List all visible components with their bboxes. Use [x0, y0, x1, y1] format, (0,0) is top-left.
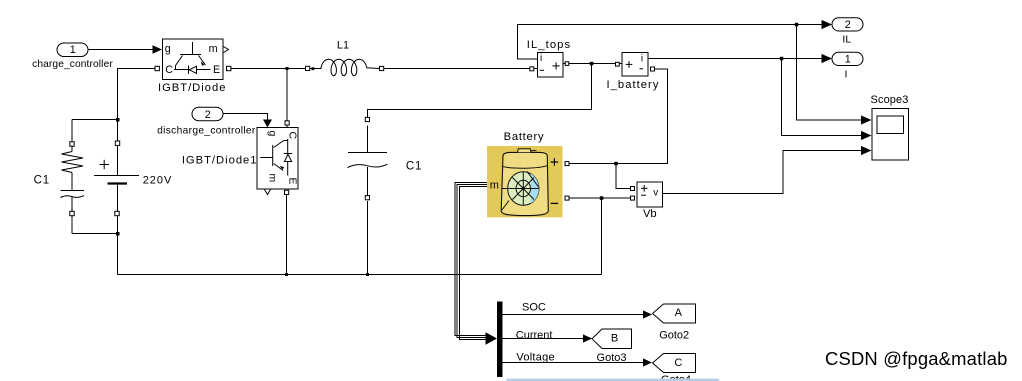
- battery logo: [508, 172, 539, 206]
- Goto B (Goto3): [592, 329, 632, 349]
- selection highlight line bottom: [506, 379, 720, 381]
- outport 2 IL: [832, 18, 863, 31]
- port square Vb minus input: [631, 196, 635, 200]
- Goto A (Goto2): [653, 304, 696, 323]
- port square IGBT/Diode1 E output: [285, 190, 289, 194]
- port square L1 right: [380, 66, 384, 70]
- wire C1 branch bottom connector: [72, 233, 118, 235]
- inport 1 charge_controller: [57, 43, 88, 57]
- svg-text:i: i: [540, 53, 542, 64]
- port square 220V top: [115, 141, 119, 145]
- Goto C (Goto4): [653, 354, 696, 373]
- wire I_battery i output to outport1 I: [648, 58, 822, 60]
- svg-text:Current: Current: [516, 330, 553, 342]
- svg-text:C1: C1: [34, 175, 50, 187]
- junction IGBT1 emitter on rail: [285, 273, 288, 276]
- svg-text:Vb: Vb: [643, 208, 657, 220]
- IGBT/Diode block U1: [163, 39, 229, 80]
- svg-text:A: A: [675, 307, 683, 319]
- port square IL_tops output: [565, 62, 569, 66]
- svg-text:I_battery: I_battery: [607, 79, 660, 91]
- arrowhead into outport2 IL: [822, 20, 833, 29]
- svg-text:I: I: [845, 68, 848, 80]
- port square C1 left branch bottom: [70, 211, 74, 215]
- svg-text:C: C: [674, 357, 682, 369]
- port square IGBT/Diode C input: [155, 66, 159, 70]
- svg-text:v: v: [653, 187, 658, 198]
- svg-text:Goto3: Goto3: [597, 352, 627, 364]
- svg-text:C1: C1: [406, 160, 422, 172]
- svg-text:m: m: [209, 43, 218, 55]
- svg-text:g: g: [267, 131, 279, 137]
- wire IL_tops plus to I_battery plus: [563, 63, 622, 65]
- port square Battery minus: [565, 196, 569, 200]
- wire C1 branch vertical segments: [71, 120, 73, 152]
- wire L1 to IL_tops: [384, 68, 538, 70]
- svg-text:Scope3: Scope3: [871, 94, 909, 106]
- svg-text:IGBT/Diode1: IGBT/Diode1: [182, 154, 258, 166]
- junction IL_tops output node: [590, 62, 594, 66]
- junction IGBT/Diode1 collector tap: [286, 67, 289, 70]
- port square IGBT/Diode E output: [227, 66, 231, 70]
- junction Battery minus node: [600, 196, 604, 200]
- wire Battery minus branch to bottom rail: [601, 198, 603, 275]
- current measurement I_battery: [622, 53, 648, 77]
- junction IL output node: [795, 23, 799, 27]
- arrowhead scope input3: [861, 146, 872, 155]
- svg-text:charge_controller: charge_controller: [32, 59, 113, 70]
- wire bottom rail: [118, 274, 602, 276]
- wire IGBT/Diode1 collector drop: [286, 69, 288, 122]
- svg-text:SOC: SOC: [522, 302, 546, 314]
- current measurement IL_tops: [538, 53, 564, 78]
- svg-text:IGBT/Diode: IGBT/Diode: [158, 82, 226, 94]
- svg-text:g: g: [165, 43, 171, 55]
- L1 branch inline square: [312, 67, 315, 70]
- wire IL_tops i output to outport2 IL: [518, 25, 822, 60]
- port square I_battery input: [616, 62, 620, 66]
- port square IL_tops input: [530, 67, 534, 71]
- wire SOC to Goto A: [503, 314, 645, 316]
- arrowhead scope input1: [861, 115, 872, 124]
- port square L1 left: [306, 66, 310, 70]
- svg-text:220V: 220V: [143, 175, 173, 187]
- DC voltage source 220V: [94, 160, 139, 184]
- arrowhead scope input2: [861, 131, 872, 140]
- arrowhead into IGBT/Diode1 g: [263, 120, 272, 128]
- svg-text:discharge_controller: discharge_controller: [157, 125, 256, 136]
- port square C1 mid top: [365, 117, 369, 121]
- wire vector bus Battery m to demux (triple line): [455, 183, 487, 336]
- wire scope input2 branch: [782, 59, 862, 136]
- svg-text:2: 2: [845, 19, 851, 31]
- wire Battery minus to Vb minus: [569, 197, 631, 199]
- wire net C: left rail x117.5: [118, 69, 156, 176]
- inductor L1: [310, 59, 380, 75]
- wire Current to Goto B: [503, 338, 584, 340]
- capacitor C1 mid: [348, 153, 388, 168]
- voltage measurement Vb: [637, 182, 663, 207]
- Battery block: [487, 146, 563, 217]
- Scope3 block: [872, 109, 909, 161]
- port square C1 left branch top: [70, 142, 74, 146]
- wire inport1 to IGBT/Diode g: [88, 49, 154, 51]
- port square Vb plus input: [631, 187, 635, 191]
- port square Battery plus: [565, 162, 569, 166]
- port square 220V bottom: [115, 211, 119, 215]
- svg-text:1: 1: [845, 54, 851, 66]
- port square I_battery minus output: [651, 67, 655, 71]
- svg-text:E: E: [287, 178, 299, 185]
- junction I output node: [780, 57, 784, 61]
- svg-text:E: E: [213, 64, 220, 76]
- wire capacitor C1 mid vertical: [367, 126, 369, 153]
- svg-text:L1: L1: [337, 40, 349, 52]
- wire I_battery minus to Battery plus: [569, 69, 668, 164]
- wire scope input1 branch: [797, 25, 862, 121]
- inport 2 discharge_controller: [192, 107, 223, 121]
- junction Battery plus node: [614, 162, 618, 166]
- wire net E: IGBT/Diode E to L1: [231, 68, 306, 70]
- demux bar: [497, 302, 503, 378]
- wire Battery plus branch to Vb plus: [616, 164, 631, 189]
- wire C1 branch top connector: [72, 119, 118, 121]
- arrowhead into Goto B: [583, 334, 592, 342]
- svg-text:Voltage: Voltage: [516, 351, 554, 363]
- wire junction drop to capacitor C1 mid: [368, 64, 592, 118]
- svg-text:i: i: [641, 53, 643, 64]
- IGBT/Diode1 block U2 (rotated): [257, 128, 299, 195]
- svg-text:m: m: [490, 179, 499, 191]
- arrowhead into IGBT/Diode g: [153, 45, 163, 53]
- junction left rail bottom connector: [116, 232, 120, 236]
- svg-text:IL_tops: IL_tops: [527, 39, 571, 51]
- outport 1 I: [832, 52, 863, 65]
- svg-text:Battery: Battery: [504, 131, 545, 143]
- junction C1 mid on rail: [366, 273, 369, 276]
- svg-text:C: C: [287, 132, 299, 140]
- svg-text:CSDN @fpga&matlab: CSDN @fpga&matlab: [825, 348, 1008, 369]
- arrowhead into outport1 I: [822, 54, 833, 63]
- arrowhead into demux: [486, 332, 498, 345]
- resistor-capacitor branch C1 left: [61, 152, 85, 198]
- svg-text:C: C: [165, 64, 173, 76]
- svg-text:2: 2: [205, 109, 211, 121]
- arrowhead into Goto C: [643, 358, 652, 366]
- svg-text:1: 1: [70, 44, 76, 56]
- svg-text:IL: IL: [842, 34, 851, 46]
- svg-text:m: m: [267, 174, 279, 183]
- wire IGBT/Diode1 emitter to bottom rail: [286, 195, 288, 275]
- wire Voltage to Goto C: [503, 362, 645, 364]
- svg-text:B: B: [611, 333, 618, 345]
- wire inport2 to IGBT/Diode1 g: [223, 114, 268, 121]
- port square C1 mid bottom: [365, 196, 369, 200]
- arrowhead into Goto A: [643, 310, 652, 318]
- junction left rail top connector: [116, 118, 120, 122]
- port square IGBT/Diode1 C input: [285, 121, 289, 125]
- svg-text:Goto2: Goto2: [659, 330, 689, 342]
- wire Vb output to scope input3: [663, 151, 862, 194]
